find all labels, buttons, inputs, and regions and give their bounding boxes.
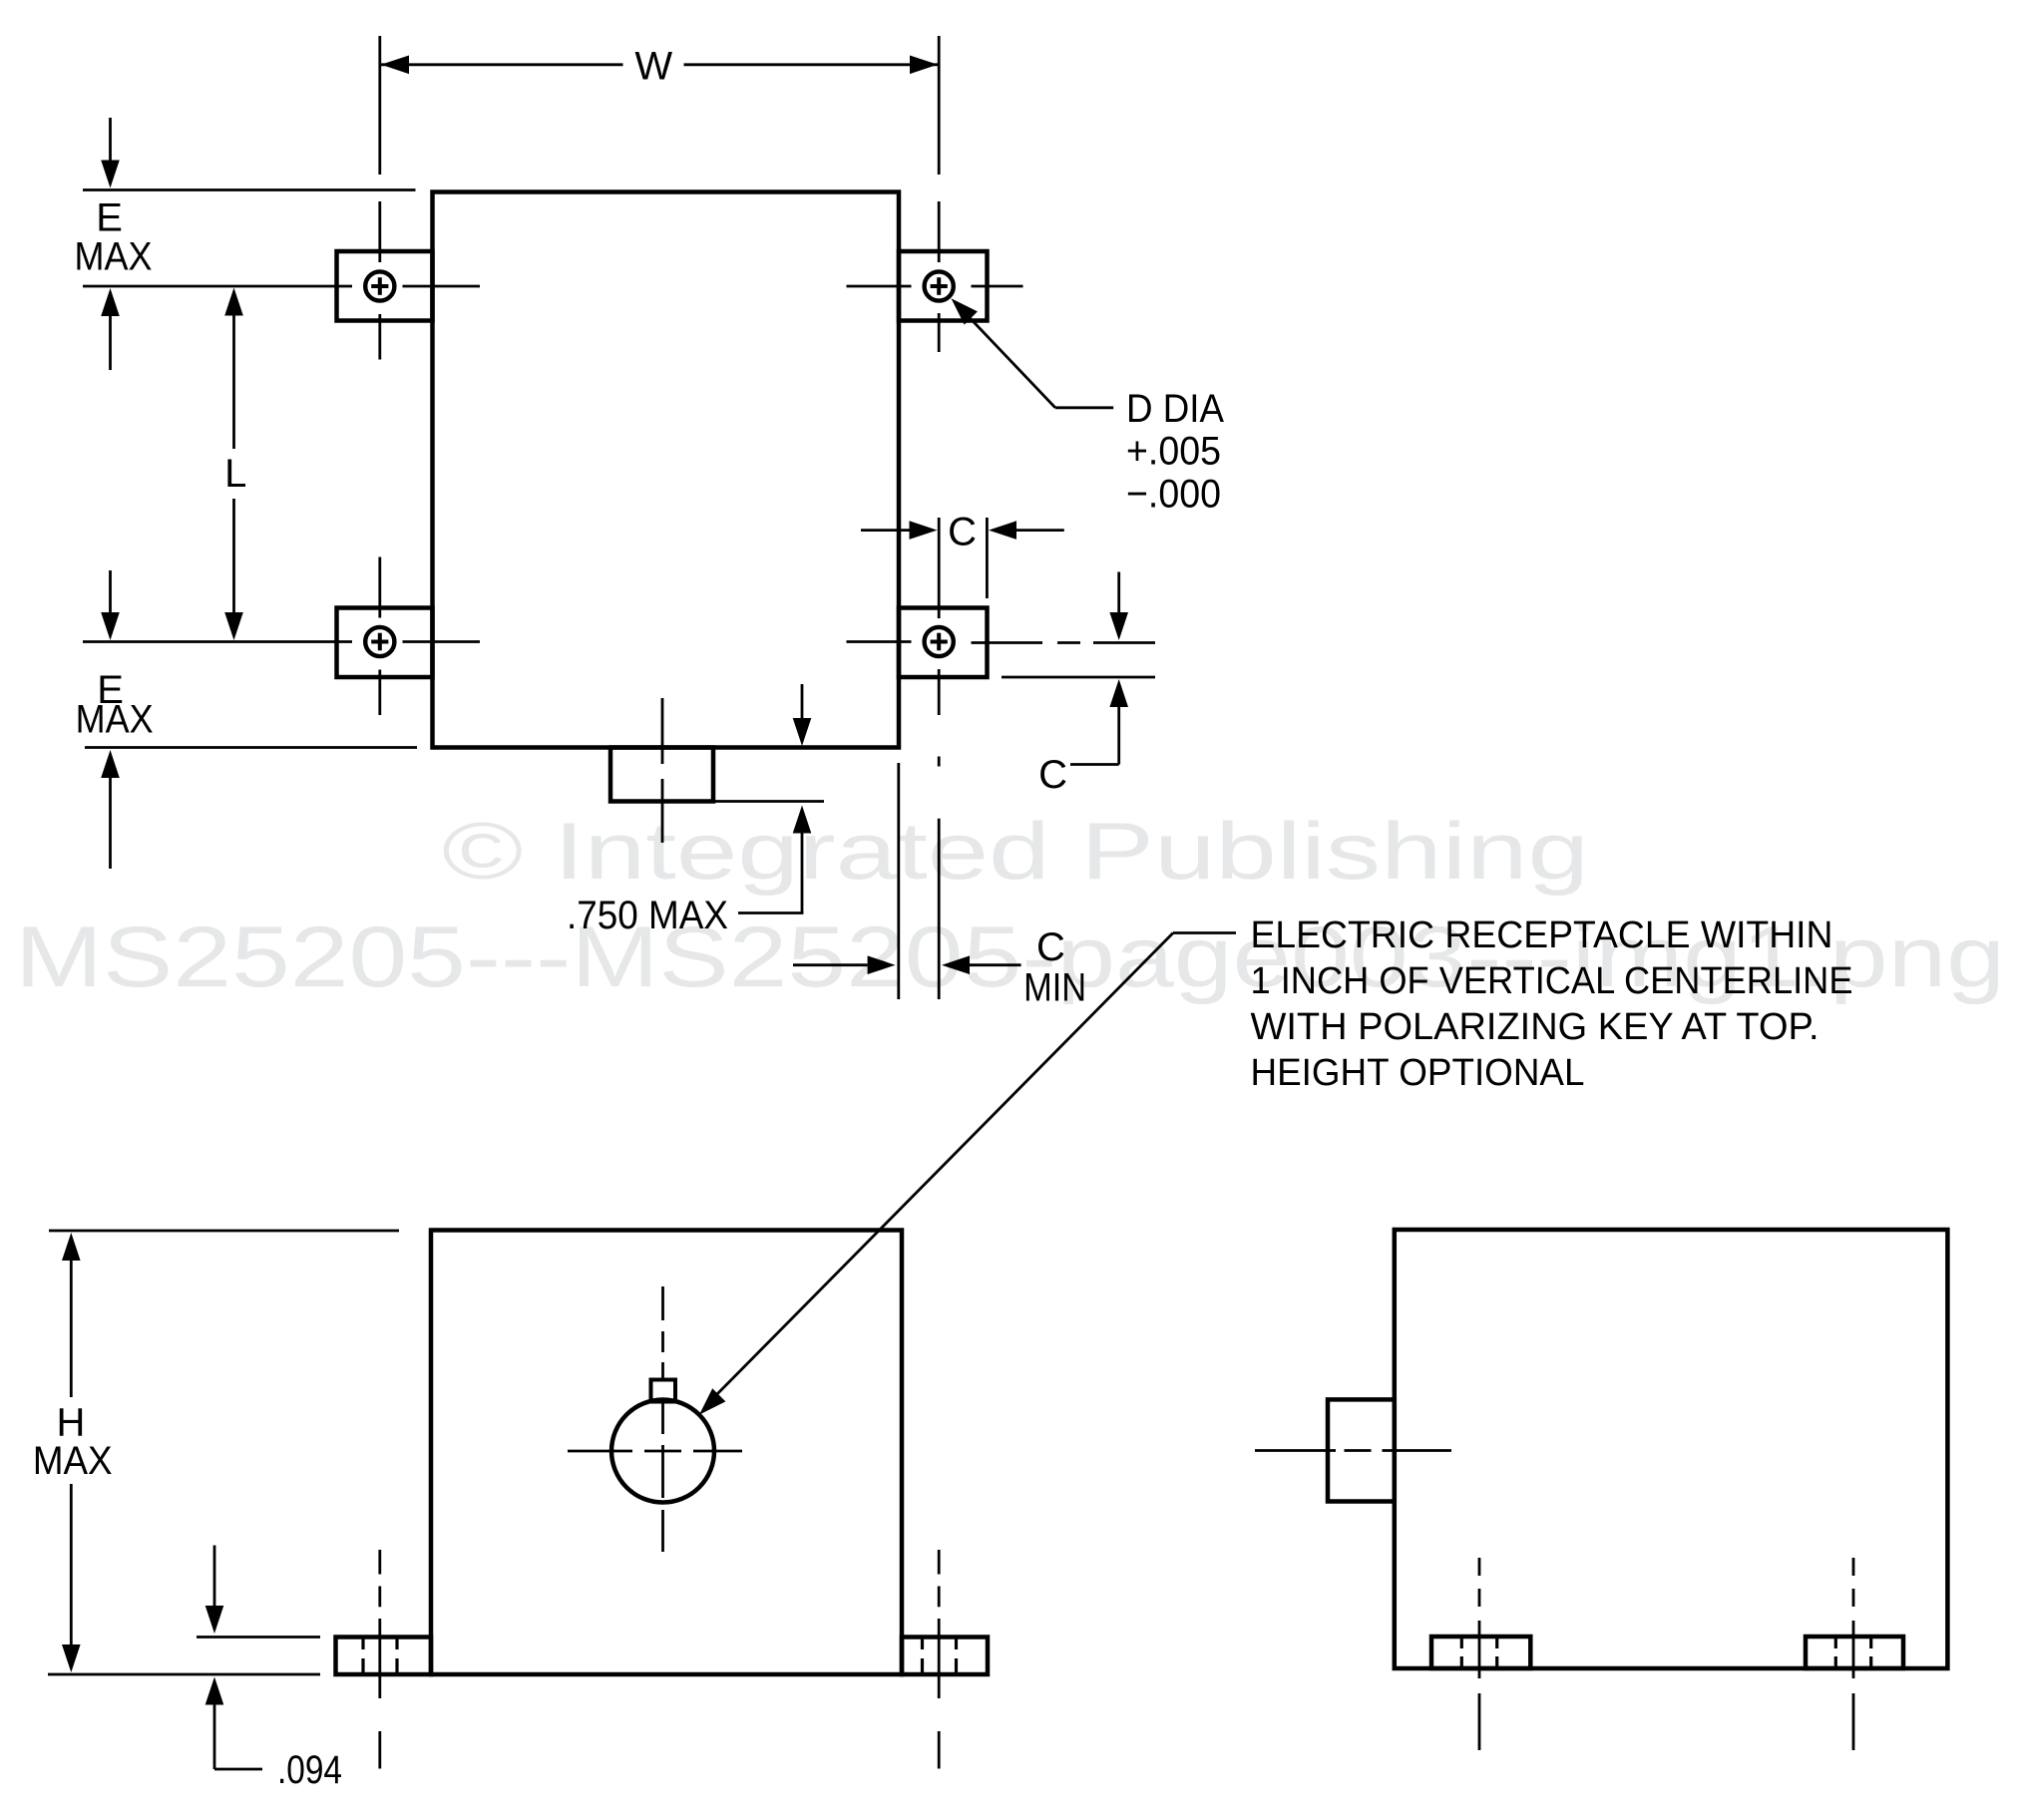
E dim: arrow pointing down to box-top line [101,161,120,188]
.750 MAX: arrow pointing down to box bottom [793,718,812,746]
receptacle horizontal centerline (left) [568,1450,632,1453]
C MIN dim: right arrowhead [942,955,970,974]
side stub centerline seg1 [1255,1449,1336,1452]
side view: connector stub [1328,1399,1395,1501]
lower-right hole centerline (left segment) [847,640,912,643]
C MIN: hole centerline extension (lower segment) [938,819,941,999]
stub centerline (upper segment) [661,698,664,764]
lower E dim: arrow pointing down to hole centerline [101,612,120,640]
W dimension: left extension line [378,36,381,175]
side view: body outline [1395,1230,1948,1668]
L dim: top arrowhead at upper hole centerline [224,288,243,316]
svg-text:W: W [634,45,672,89]
top view: upper-left mounting tab [337,251,433,321]
upper hole centerline + E/L extension line (left) [83,285,352,288]
side stub centerline seg2 [1345,1449,1372,1452]
hidden hole edge in side foot [1869,1638,1872,1648]
C MIN dim: left arrowhead [868,955,896,974]
side foot hole centerline [1852,1558,1855,1576]
hidden hole edge in side foot [1495,1638,1498,1648]
note leader arrowhead (points at receptacle) [699,1388,725,1414]
mounting hole upper-right (target symbol) [925,271,954,300]
C MIN dim: left tail [793,963,868,966]
svg-text:D DIA: D DIA [1126,387,1224,431]
top view: lower-left mounting tab [337,608,433,678]
upper-left hole centerline dash (right) [403,285,481,288]
mounting hole lower-right (target symbol) [925,627,954,656]
lower hole centerline + E/L extension line (left) [83,640,352,643]
top view: relay body outline [433,192,900,748]
svg-text:C: C [948,511,977,554]
svg-text:C: C [1038,753,1067,797]
svg-text:+.005: +.005 [1126,430,1221,474]
centerline above lower-left hole [378,557,381,618]
H dimension line (lower) [70,1484,73,1644]
.094 dim: arrow up to bottom line [205,1677,224,1705]
D DIA leader diagonal [958,305,1055,408]
C MIN: hole centerline extension (short dash) [938,757,941,767]
svg-text:H: H [57,1401,86,1445]
.094 dim: leader vertical [213,1705,216,1770]
svg-text:1 INCH OF VERTICAL CENTERLINE: 1 INCH OF VERTICAL CENTERLINE [1251,960,1853,1002]
.750 MAX: upper arrow tail (inside box) [801,684,804,718]
receptacle vertical centerline seg2 [661,1331,664,1352]
receptacle vertical centerline seg3 [661,1362,664,1380]
C dim: extension of tab edge downward [986,518,989,598]
W dimension line (left half) [380,63,623,66]
.094 dim: leader horizontal [214,1768,262,1771]
centerline below upper-right hole [938,313,941,352]
centerline above upper-left hole [378,201,381,262]
.750 MAX: arrow pointing up to stub bottom line [793,806,812,834]
tab bottom extension line (right) [1002,676,1155,679]
receptacle horizontal centerline (right) [693,1450,742,1453]
mounting hole upper-left (target symbol) [365,271,394,300]
upper-right hole centerline (left segment) [847,285,912,288]
C dim: right tail [1016,529,1064,532]
.094 dim: arrow down to foot top line [205,1606,224,1634]
L dim: bottom arrowhead at lower hole centerline [224,612,243,640]
L dimension line upper part [232,316,235,450]
front view: body outline [431,1231,902,1675]
lower-left hole centerline dash (right) [403,640,481,643]
svg-text:HEIGHT OPTIONAL: HEIGHT OPTIONAL [1251,1052,1585,1094]
E dim: lower arrow tail [109,316,112,370]
H dim: top arrowhead [62,1233,81,1261]
svg-text:MAX: MAX [76,698,154,742]
upper-right hole centerline (right segment) [972,285,1023,288]
right C dim: down arrowhead at centerline [1109,612,1128,640]
svg-text:E: E [96,196,123,240]
H dim: bottom arrowhead [62,1644,81,1672]
svg-text:MAX: MAX [75,234,153,278]
W dimension: right arrowhead [910,56,938,75]
H dim: bottom extension line [48,1673,320,1676]
hidden hole edge in foot [955,1638,958,1649]
electric receptacle circle (front view) [611,1400,714,1503]
right C dim: upper arrow tail [1117,572,1120,613]
W dimension: right extension line [938,36,941,175]
svg-text:ELECTRIC RECEPTACLE WITHIN: ELECTRIC RECEPTACLE WITHIN [1251,914,1833,956]
C dim: extension of hole centerline downward [938,518,941,618]
C dim: left tail [861,529,910,532]
front view: right mounting foot [902,1638,988,1675]
right C dim: up arrowhead at tab bottom line [1109,679,1128,707]
box bottom extension line (left) [85,746,417,749]
stub centerline (lower segment) [661,779,664,843]
centerline below lower-right hole [938,669,941,715]
C dim: left arrowhead [910,521,938,540]
right C dim: leader horizontal to label [1070,763,1119,766]
svg-text:MIN: MIN [1023,965,1086,1009]
E dim: arrow pointing up to hole centerline [101,288,120,316]
lower E dim: arrow pointing up to box-bottom line [101,750,120,778]
foot hole centerline (front view) [378,1550,381,1575]
receptacle vertical centerline seg4 [661,1401,664,1434]
lower-right hole centerline dash 1 [972,641,1043,644]
E dim: upper arrow tail [109,118,112,161]
receptacle horizontal centerline (mid) [644,1450,681,1453]
H dim: top extension line [49,1230,399,1233]
top view: lower-right mounting tab [899,608,988,678]
front view: left mounting foot [336,1638,432,1675]
C MIN: extension of box right edge downward [897,763,900,999]
.750 MAX: leader horizontal [738,911,803,914]
top view: bottom connector stub [610,748,713,802]
.094 dim: upper arrow tail [213,1546,216,1607]
svg-text:C: C [1036,925,1065,969]
note leader diagonal [707,933,1174,1405]
D DIA leader horizontal [1055,406,1113,409]
lower E dim: upper arrow tail [109,570,112,612]
side view: left mounting foot [1431,1637,1530,1668]
right C dim: lower tail / leader vertical [1117,707,1120,765]
C dim: right arrowhead [989,521,1016,540]
lower-right hole centerline dash 3 [1093,641,1155,644]
hidden hole edge in side foot [1460,1638,1463,1648]
W dimension line (right half) [684,63,939,66]
note leader horizontal [1173,931,1236,934]
hidden hole edge in side foot [1834,1638,1837,1648]
svg-text:L: L [224,452,246,496]
hidden hole edge in foot [395,1638,398,1649]
centerline below upper-left hole [378,314,381,360]
hidden hole edge in foot [361,1638,364,1649]
receptacle vertical centerline seg1 [661,1286,664,1320]
foot hole centerline (front view) [938,1550,941,1575]
C MIN dim: right tail [970,963,1021,966]
hidden hole edge in foot [921,1638,924,1649]
H dimension line (upper) [70,1261,73,1397]
side foot hole centerline [1478,1558,1481,1576]
top view: upper-right mounting tab [899,251,988,321]
E dimension: top extension line (box top) [83,188,416,191]
svg-text:−.000: −.000 [1126,473,1221,517]
stub bottom extension line [713,800,824,803]
lower E dim: lower arrow tail [109,778,112,869]
centerline above upper-right hole [938,201,941,262]
receptacle vertical centerline seg5 [661,1445,664,1498]
centerline below lower-left hole [378,670,381,716]
D DIA leader arrowhead (points at hole) [952,298,978,324]
.750 MAX: leader vertical [801,834,804,913]
svg-text:WITH POLARIZING KEY AT TOP.: WITH POLARIZING KEY AT TOP. [1251,1006,1819,1048]
svg-text:© Integrated Publishing: © Integrated Publishing [442,807,1589,897]
polarizing key on receptacle [651,1380,676,1402]
mounting hole lower-left (target symbol) [365,627,394,656]
L dimension line lower part [232,499,235,612]
lower-right hole centerline dash 2 [1057,641,1080,644]
svg-text:MAX: MAX [33,1439,113,1483]
.094 dim: foot top extension line [197,1636,320,1638]
receptacle vertical centerline seg6 [661,1510,664,1552]
side stub centerline seg3 [1383,1449,1452,1452]
side view: right mounting foot [1806,1637,1903,1668]
W dimension: left arrowhead [381,56,409,75]
svg-text:.750 MAX: .750 MAX [567,894,728,937]
svg-text:.094: .094 [277,1748,342,1792]
